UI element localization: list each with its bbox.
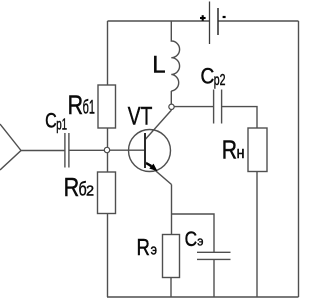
transistor VT circle xyxy=(129,130,171,172)
svg-text:R: R xyxy=(222,136,237,164)
svg-text:э: э xyxy=(197,234,204,249)
input terminal arrow xyxy=(0,124,21,170)
wire emitter branch to Ce xyxy=(172,214,215,252)
wire Re bottom to bottom rail xyxy=(170,278,172,298)
wire R61 bottom to node A xyxy=(107,128,109,147)
resistor Re body xyxy=(163,235,180,278)
wire input to capacitor Cp1 xyxy=(21,150,65,152)
battery positive plate (long) xyxy=(209,2,211,45)
wire node A to transistor base xyxy=(110,149,145,151)
wire left rail upper (top rail to R1 top) xyxy=(107,21,109,85)
svg-text:C: C xyxy=(201,64,215,89)
battery minus sign xyxy=(223,16,226,18)
transistor VT emitter arrow xyxy=(146,163,157,171)
svg-text:э: э xyxy=(151,242,158,259)
svg-text:L: L xyxy=(152,51,165,78)
capacitor Cp1 left plate xyxy=(64,133,66,168)
svg-text:R: R xyxy=(137,234,150,260)
resistor R61 (Rб1) body xyxy=(98,85,116,128)
svg-text:p2: p2 xyxy=(214,72,226,89)
wire top rail left of battery xyxy=(108,20,210,22)
wire Cp1 to node A xyxy=(69,149,104,151)
wire Rn bottom to bottom rail xyxy=(256,172,258,298)
svg-text:VT: VT xyxy=(128,102,153,130)
transistor VT collector diagonal xyxy=(145,110,171,140)
svg-text:R: R xyxy=(64,174,80,202)
wire collector node up to inductor xyxy=(170,91,172,104)
capacitor Cp1 right plate xyxy=(68,133,70,168)
capacitor Ce bottom plate xyxy=(197,258,231,260)
node A (base junction) xyxy=(104,147,109,152)
svg-text:2: 2 xyxy=(86,184,94,200)
transistor VT base bar xyxy=(144,133,146,168)
svg-text:н: н xyxy=(237,143,245,162)
transistor VT emitter diagonal xyxy=(145,162,171,185)
wire Cp2 to Rn top xyxy=(222,107,257,128)
capacitor Cp2 left plate xyxy=(213,90,215,124)
resistor Rn body xyxy=(248,128,267,172)
battery plus sign xyxy=(200,15,206,21)
wire emitter down xyxy=(171,185,173,235)
battery negative plate (short) xyxy=(217,8,219,35)
capacitor Cp2 right plate xyxy=(221,90,223,124)
wire Ce bottom to bottom rail xyxy=(213,259,215,297)
svg-text:p1: p1 xyxy=(56,117,67,134)
inductor L coil xyxy=(171,21,179,91)
wire node A to R62 top xyxy=(107,153,109,172)
svg-text:C: C xyxy=(45,110,57,133)
wire bottom rail xyxy=(107,296,299,298)
wire right rail xyxy=(298,21,300,297)
node B (collector junction) xyxy=(169,104,174,109)
wire top rail right of battery xyxy=(218,20,299,22)
svg-text:R: R xyxy=(68,90,84,120)
resistor R62 (Rб2) body xyxy=(98,172,116,214)
wire collector node to capacitor Cp2 xyxy=(174,106,213,108)
capacitor Ce top plate xyxy=(197,251,231,253)
svg-text:C: C xyxy=(185,226,198,251)
svg-text:б1: б1 xyxy=(83,98,95,119)
wire R62 bottom to bottom rail xyxy=(107,214,109,298)
